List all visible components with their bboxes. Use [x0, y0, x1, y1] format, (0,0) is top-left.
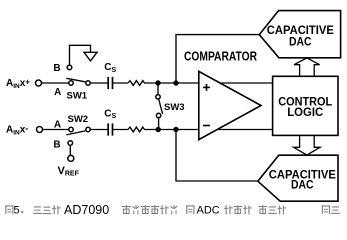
svg-text:DAC: DAC: [289, 36, 312, 48]
svg-text:SW2: SW2: [68, 114, 89, 125]
svg-text:SW1: SW1: [67, 90, 88, 101]
svg-text:5: 5: [14, 205, 20, 215]
svg-text:A: A: [54, 87, 61, 98]
svg-text:LOGIC: LOGIC: [287, 107, 323, 119]
svg-text:DAC: DAC: [291, 180, 314, 192]
svg-text:AD7090: AD7090: [64, 203, 109, 215]
svg-text:B: B: [53, 140, 60, 151]
svg-text:ADC: ADC: [197, 205, 220, 215]
svg-text:B: B: [53, 63, 60, 74]
svg-text:COMPARATOR: COMPARATOR: [184, 49, 257, 63]
svg-text:SW3: SW3: [164, 102, 185, 113]
svg-text:A: A: [54, 119, 61, 130]
